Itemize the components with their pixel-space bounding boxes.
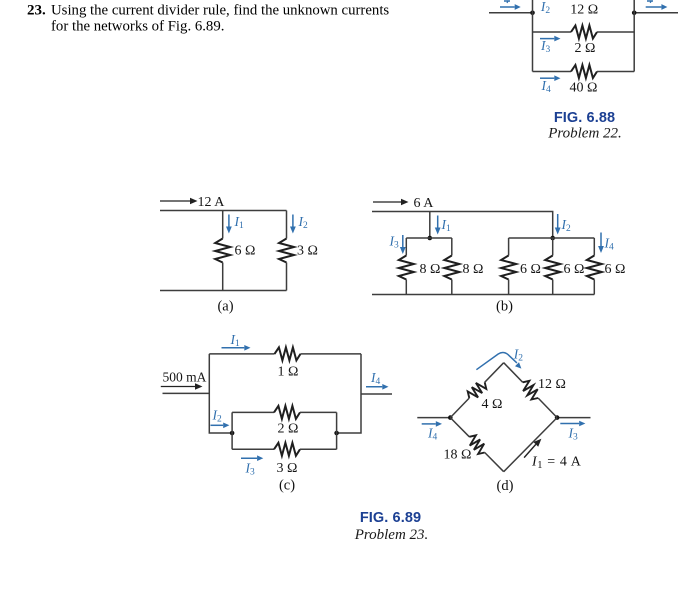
wire: (b) bottom bus (372, 294, 594, 296)
resistor 3Ω (c) (274, 443, 300, 456)
svg-text:FIG. 6.89: FIG. 6.89 (360, 510, 421, 526)
svg-text:Problem 22.: Problem 22. (547, 125, 622, 141)
current arrow I3 (b) (400, 235, 406, 254)
wire: (b) 6Ω-2 bottom stub (552, 280, 554, 295)
wire: (c) top branch right segment (301, 353, 362, 355)
svg-text:40 Ω: 40 Ω (570, 81, 598, 96)
svg-text:Problem 23.: Problem 23. (354, 527, 429, 543)
wire: (b) 6Ω-1 top stub (508, 238, 510, 256)
svg-text:3 Ω: 3 Ω (297, 244, 318, 259)
resistor 6Ω R1 (a) (215, 239, 230, 263)
current arrow I1 (d, along lower-right edge) (524, 439, 541, 458)
wire: (c) left vertical (209, 354, 232, 433)
current arrow I4 (c) (366, 384, 389, 390)
svg-text:12 Ω: 12 Ω (538, 377, 566, 392)
svg-text:12 A: 12 A (198, 195, 226, 210)
current arrow I1 into fig6.88 (cut off) (500, 4, 521, 10)
resistor 12Ω (d) (523, 381, 538, 400)
wire: (a) branch-1 bottom stub (222, 263, 224, 291)
wire: fig6.88 bottom row left segment (533, 71, 572, 73)
svg-text:6 Ω: 6 Ω (564, 262, 585, 277)
resistor 40Ω (fig6.88) (571, 65, 597, 78)
wire: (a) branch-2 top stub (286, 211, 288, 239)
wire: (b) right group bus (509, 237, 595, 239)
resistor 6Ω R5 (b) (587, 256, 602, 280)
label I1 fragment (cut off at page top) (504, 1, 510, 4)
label I fragment (cut off at page top) (647, 1, 653, 3)
svg-text:12 Ω: 12 Ω (570, 2, 598, 17)
wire: (a) bottom bus (160, 290, 287, 292)
current arrow I-out of fig6.88 (cut off) (646, 4, 668, 10)
current arrow I4 (d) (422, 421, 442, 427)
wire: (d) edge top node to 12Ω (504, 363, 523, 383)
wire: (b) drop to left group (429, 212, 431, 239)
current arrow I4 (fig6.88) (540, 75, 561, 81)
svg-text:6 Ω: 6 Ω (520, 262, 541, 277)
svg-text:3 Ω: 3 Ω (277, 461, 298, 476)
resistor 1Ω (c) (275, 347, 301, 360)
wire: (b) 8Ω-2 bottom stub (451, 280, 453, 295)
wire: (b) 8Ω-1 top stub (405, 238, 407, 256)
node: (b) right group junction (550, 236, 555, 241)
wire: (a) branch-2 bottom stub (286, 263, 288, 291)
svg-text:(c): (c) (279, 478, 295, 494)
resistor 4Ω (d) (468, 382, 487, 398)
resistor 2Ω (c) (274, 406, 300, 419)
wire: fig6.88 middle row right segment (597, 31, 634, 33)
wire: (c) top branch left segment (209, 353, 274, 355)
wire: (c) 2Ω loop right riser (336, 412, 338, 433)
wire: (b) 6Ω-3 bottom stub (593, 280, 595, 295)
node: fig6.88 left junction (530, 11, 535, 16)
wire: fig6.88 right output wire (634, 12, 678, 14)
svg-text:6 Ω: 6 Ω (605, 262, 626, 277)
wire: (d) edge bottom node to right node (504, 418, 557, 472)
wire: fig6.88 middle row left segment (533, 31, 572, 33)
wire: (a) branch-1 top stub (222, 211, 224, 239)
wire: (c) 3Ω branch right segment (300, 448, 337, 450)
current arrow I3 (fig6.88) (540, 36, 561, 42)
svg-text:(a): (a) (217, 299, 233, 315)
wire: (c) input stub (163, 392, 210, 394)
wire: (d) edge left-node to 4Ω (450, 398, 469, 418)
wire: (c) 2Ω branch left segment (232, 411, 274, 413)
wire: fig6.88 bottom row right segment (597, 71, 634, 73)
current arrow I2 (a) (290, 215, 296, 234)
svg-text:6 A: 6 A (414, 196, 435, 211)
resistor 6Ω R3 (b) (501, 256, 516, 280)
node: (d) left node (448, 415, 453, 420)
wire: (c) 2Ω loop left riser (231, 412, 233, 433)
current arrow I1 (c) (222, 345, 251, 351)
wire: fig6.88 left input wire (489, 12, 533, 14)
wire: (c) 3Ω loop right riser (336, 433, 338, 449)
wire: (c) 3Ω branch left segment (232, 448, 274, 450)
svg-text:6 Ω: 6 Ω (235, 244, 256, 259)
wire: fig6.88 right vertical (cut off at page top) (633, 0, 635, 72)
svg-text:8 Ω: 8 Ω (463, 262, 484, 277)
current arrow I2 (c) (211, 423, 230, 429)
wire: (c) right vertical (337, 354, 361, 433)
svg-text:500 mA: 500 mA (163, 369, 207, 384)
wire: (b) 6Ω-1 bottom stub (508, 280, 510, 295)
current arrow I1 (b) (435, 216, 441, 235)
wire: (a) top bus (160, 210, 287, 212)
wire: (d) edge 4Ω to top node (485, 363, 504, 383)
svg-text:Using the current divider rule: Using the current divider rule, find the… (51, 3, 389, 19)
wire: (b) 6Ω-2 top stub (552, 238, 554, 256)
wire: (b) left group bus (406, 237, 452, 239)
wire: (d) edge 12Ω to right node (538, 398, 557, 418)
svg-text:1 Ω: 1 Ω (278, 365, 299, 380)
svg-text:(b): (b) (496, 299, 513, 315)
svg-text:8 Ω: 8 Ω (420, 262, 441, 277)
wire: (d) left stub (417, 417, 450, 419)
current arrow I1 (a) (226, 215, 232, 234)
current source arrow 500 mA (c) (161, 383, 203, 390)
svg-text:18 Ω: 18 Ω (444, 448, 472, 463)
wire: (c) 3Ω loop left riser (231, 433, 233, 449)
svg-text:(d): (d) (497, 478, 514, 494)
wire: (d) edge left node to 18Ω (450, 418, 469, 437)
svg-text:23.: 23. (27, 3, 46, 19)
resistor 8Ω R1 (b) (399, 256, 414, 280)
current arrow I3 (c) (241, 455, 263, 461)
wire: (c) 2Ω branch right segment (300, 411, 337, 413)
wire: (b) 6Ω-3 top stub (593, 238, 595, 256)
wire: (b) 8Ω-2 top stub (451, 238, 453, 256)
node: (c) left node (230, 431, 235, 436)
current arrow I2 (d, curved over top node) (476, 353, 521, 370)
node: fig6.88 right junction (632, 11, 637, 16)
resistor 18Ω (d) (469, 435, 484, 454)
current source arrow 6 A (b) (373, 199, 409, 206)
current arrow I4 (b) (598, 233, 604, 254)
resistor 6Ω R4 (b) (545, 256, 560, 280)
wire: (b) 8Ω-1 bottom stub (405, 280, 407, 295)
svg-text:2 Ω: 2 Ω (575, 41, 596, 56)
current arrow I3 (d) (560, 421, 585, 427)
wire: (d) edge 18Ω to bottom node (485, 453, 504, 472)
node: (b) left group junction (428, 236, 433, 241)
node: (d) right node (555, 415, 560, 420)
svg-text:for the networks of Fig. 6.89.: for the networks of Fig. 6.89. (51, 19, 224, 35)
wire: (b) top bus (372, 212, 553, 239)
wire: (d) right stub (557, 417, 590, 419)
wire: (c) output stub (361, 393, 392, 395)
resistor 3Ω R2 (a) (279, 239, 294, 263)
resistor 2Ω (fig6.88) (571, 26, 597, 39)
svg-text:2 Ω: 2 Ω (278, 422, 299, 437)
node: (c) right node (334, 431, 339, 436)
resistor 8Ω R2 (b) (444, 256, 459, 280)
svg-text:FIG. 6.88: FIG. 6.88 (554, 110, 615, 126)
svg-text:4 Ω: 4 Ω (482, 397, 503, 412)
current arrow I2 (b) (555, 214, 561, 235)
current source arrow 12 A (a) (160, 198, 198, 205)
wire: fig6.88 left vertical (cut off at page top) (532, 0, 534, 72)
